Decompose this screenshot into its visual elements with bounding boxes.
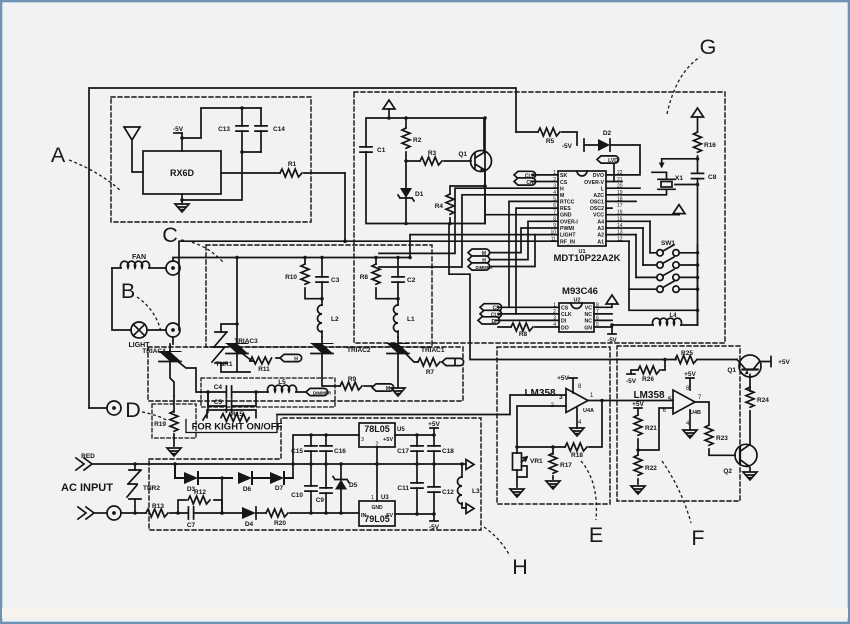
- triac TRIAC3: [226, 338, 258, 354]
- svg-text:M: M: [560, 193, 564, 199]
- U1 left pin labels: [560, 173, 578, 246]
- IC U5 78L05: [359, 423, 405, 448]
- wire triac2 bottom to R9: [322, 354, 340, 386]
- power +5V osc box: [383, 100, 395, 118]
- svg-text:OVER-I: OVER-I: [560, 220, 578, 226]
- svg-text:R20: R20: [274, 520, 286, 527]
- svg-text:R21: R21: [645, 425, 657, 432]
- svg-text:17: 17: [617, 203, 623, 209]
- svg-text:MDT10P22A2K: MDT10P22A2K: [553, 253, 620, 264]
- svg-text:U5: U5: [397, 427, 405, 433]
- wire R1 down to RF_IN: [344, 173, 346, 241]
- svg-text:R8: R8: [519, 331, 528, 338]
- svg-text:G: G: [700, 35, 717, 59]
- capacitor C15: [291, 435, 317, 464]
- label +5V r21: [632, 401, 644, 415]
- label -5V: [173, 126, 184, 133]
- svg-text:R12: R12: [194, 489, 206, 496]
- svg-text:C14: C14: [273, 126, 285, 133]
- varistor TNR1: [212, 324, 250, 372]
- dashed box F: [617, 346, 740, 501]
- transistor Q2: [723, 444, 757, 475]
- svg-text:R17: R17: [560, 462, 572, 469]
- flag gate R7: [442, 358, 464, 365]
- wire pin10 LIGHT: [410, 235, 558, 258]
- svg-text:R8: R8: [360, 274, 369, 281]
- svg-text:GN: GN: [584, 325, 592, 331]
- U1 right pin stubs: [606, 175, 679, 241]
- svg-text:1: 1: [371, 495, 374, 501]
- dashed box C: [206, 245, 432, 347]
- svg-text:R26: R26: [642, 376, 654, 383]
- U2 pin labels: [561, 306, 592, 332]
- wire triac1 bottom gnd: [391, 354, 405, 396]
- svg-text:C13: C13: [218, 126, 230, 133]
- svg-text:D2: D2: [603, 130, 612, 137]
- svg-text:C8: C8: [708, 174, 717, 181]
- wire pin8 OVER-I: [490, 221, 558, 259]
- wire Q1 emitter: [485, 170, 558, 224]
- svg-text:R1: R1: [288, 161, 297, 168]
- wire AC line1: [92, 463, 462, 465]
- svg-text:FAN: FAN: [132, 254, 146, 261]
- wire light col down: [170, 337, 173, 351]
- wire pin5 RTCC: [509, 201, 558, 307]
- svg-text:AC INPUT: AC INPUT: [61, 482, 113, 494]
- resistor R8: [360, 258, 398, 299]
- wire signal to F box: [449, 224, 665, 360]
- wire zero cross to E: [277, 395, 566, 415]
- wire lamp to terminal: [147, 329, 166, 331]
- svg-text:RED: RED: [81, 453, 95, 460]
- IC RX6D: [143, 151, 221, 194]
- switch row1: [650, 221, 698, 256]
- capacitor C3: [316, 258, 340, 299]
- resistor R16: [694, 132, 717, 172]
- U1 right pin labels: [584, 173, 605, 246]
- wire 78L05 pin2: [376, 447, 378, 464]
- dashed box H: [149, 418, 481, 530]
- terminal FAN: [166, 261, 180, 275]
- svg-text:C17: C17: [397, 448, 409, 455]
- wire triac4 gate: [176, 360, 208, 392]
- svg-text:H: H: [560, 187, 564, 193]
- wire -5V rail: [395, 513, 434, 515]
- inductor L3: [458, 464, 480, 508]
- svg-text:D: D: [125, 398, 141, 422]
- svg-text:3: 3: [361, 437, 364, 443]
- svg-text:DIMMER: DIMMER: [476, 265, 493, 270]
- svg-text:R18: R18: [571, 452, 583, 459]
- svg-text:TNR2: TNR2: [143, 485, 160, 492]
- svg-text:-5V: -5V: [607, 338, 616, 344]
- svg-text:U3: U3: [381, 495, 389, 501]
- wire diode row feed: [175, 464, 178, 478]
- terminal T1: [107, 401, 121, 415]
- svg-text:F: F: [691, 526, 704, 550]
- capacitor C4: [208, 384, 256, 398]
- svg-text:-5V: -5V: [626, 378, 637, 385]
- svg-text:NC: NC: [585, 312, 593, 318]
- ground RX6D: [175, 194, 189, 212]
- inductor L4: [612, 313, 698, 325]
- capacitor C2: [392, 258, 416, 299]
- wire fan rail: [173, 258, 410, 262]
- inductor L5: [256, 379, 306, 392]
- inductor L1: [394, 299, 415, 337]
- capacitor C14: [255, 108, 285, 152]
- svg-text:R16: R16: [704, 142, 716, 149]
- svg-text:RTCC: RTCC: [560, 200, 575, 206]
- antenna: [124, 127, 143, 172]
- svg-text:21: 21: [617, 177, 623, 183]
- resistor R2: [402, 118, 422, 161]
- wire D7 up to 78L05: [293, 435, 359, 478]
- svg-text:A2: A2: [597, 233, 604, 239]
- svg-text:+5V: +5V: [778, 359, 790, 366]
- capacitor C11: [397, 464, 423, 514]
- dashed box triac row: [148, 347, 463, 401]
- flag H gate: [280, 354, 302, 362]
- svg-text:5: 5: [668, 396, 672, 403]
- terminal T2: [107, 506, 121, 520]
- svg-text:D7: D7: [275, 485, 284, 492]
- power +5V u4b: [684, 371, 696, 390]
- flag CN pin2: [514, 178, 558, 186]
- svg-text:CLK: CLK: [561, 312, 572, 318]
- ground u4a pin4: [570, 408, 584, 436]
- svg-text:+5V: +5V: [684, 371, 696, 378]
- wire AC line2: [94, 512, 107, 514]
- U1 left pin numbers: [550, 170, 556, 243]
- svg-text:OSC1: OSC1: [590, 200, 604, 206]
- dashed box dimmer: [201, 378, 335, 407]
- svg-text:LM358: LM358: [524, 388, 556, 399]
- flag CLR pin1: [514, 171, 558, 179]
- resistor R4: [435, 186, 485, 224]
- capacitor C7: [178, 507, 222, 529]
- svg-text:RES: RES: [560, 206, 571, 212]
- svg-text:C9: C9: [316, 497, 325, 504]
- resistor R26: [631, 360, 665, 384]
- wire pin4 M: [379, 195, 558, 267]
- svg-text:C2: C2: [407, 277, 416, 284]
- arrow out low: [466, 504, 474, 514]
- capacitor C18b: [428, 435, 454, 464]
- svg-text:VC: VC: [585, 306, 592, 312]
- flag DIMMER out: [306, 388, 332, 395]
- resistor R12 parallel: [178, 489, 222, 513]
- resistor R9: [340, 376, 372, 390]
- opamp U4B: [633, 386, 702, 427]
- capacitor C12: [428, 464, 454, 514]
- svg-text:B: B: [121, 279, 135, 303]
- svg-text:D5: D5: [349, 482, 358, 489]
- ground R17: [546, 481, 560, 489]
- resistor R5: [516, 128, 577, 145]
- label -5V u2: [607, 327, 616, 344]
- flag DIMMER mid: [468, 263, 492, 270]
- svg-text:VCC: VCC: [593, 213, 604, 219]
- wire pin3 H: [379, 188, 558, 253]
- svg-text:L5: L5: [278, 379, 286, 386]
- resistor R25: [665, 350, 737, 364]
- diode D2: [598, 130, 640, 175]
- switch row3: [636, 235, 698, 281]
- arrow out mid: [462, 460, 474, 470]
- capacitor C9: [316, 464, 332, 513]
- capacitor C5: [208, 392, 256, 412]
- svg-text:R13: R13: [152, 503, 164, 510]
- svg-text:DO: DO: [561, 325, 569, 331]
- flag CLK u2: [480, 310, 559, 318]
- wire pin9 PWMI: [490, 228, 558, 253]
- resistor R13: [121, 503, 178, 517]
- wire oscillator sub-box: [366, 118, 485, 224]
- svg-text:D1: D1: [415, 191, 424, 198]
- svg-text:DIMMER: DIMMER: [313, 390, 332, 395]
- svg-text:M: M: [386, 386, 390, 392]
- wire pin10b to flag: [490, 235, 535, 267]
- resistor R19: [154, 396, 178, 446]
- text FOR KIGHT ON/OFF: [186, 415, 283, 433]
- svg-text:VR1: VR1: [530, 458, 543, 465]
- wire pin11 RF_IN long: [179, 241, 558, 330]
- svg-text:H: H: [512, 555, 528, 579]
- svg-text:DI: DI: [561, 319, 567, 325]
- svg-text:-5V: -5V: [384, 513, 393, 519]
- dashed box E: [497, 347, 610, 504]
- svg-text:C11: C11: [397, 485, 409, 492]
- inductor L2: [318, 299, 339, 337]
- svg-text:C4: C4: [214, 384, 223, 391]
- svg-text:IN: IN: [361, 513, 367, 519]
- svg-text:TRIAC1: TRIAC1: [421, 347, 445, 354]
- power +5V u4a: [557, 375, 577, 393]
- svg-text:C7: C7: [187, 522, 196, 529]
- resistor R20: [266, 509, 359, 527]
- svg-text:78L05: 78L05: [364, 424, 390, 434]
- svg-text:C12: C12: [442, 489, 454, 496]
- svg-text:OVER-V: OVER-V: [584, 180, 604, 186]
- diode D3: [178, 472, 232, 493]
- wire left AC to terminal: [89, 407, 107, 409]
- ground R22: [631, 486, 645, 494]
- wire D3-D6 junction down: [221, 478, 223, 513]
- svg-text:D4: D4: [245, 521, 254, 528]
- arrow pointer at X1: [659, 159, 698, 169]
- U2 right stubs: [594, 307, 612, 327]
- wire fan column: [112, 268, 131, 330]
- arrow AC line2: [78, 507, 94, 519]
- triac TRIAC1: [387, 337, 445, 354]
- diode D6: [238, 472, 270, 493]
- zener D5: [333, 464, 358, 513]
- wire sw bus: [629, 241, 698, 325]
- svg-text:+5V: +5V: [632, 401, 644, 408]
- IC U3 79L05: [359, 495, 395, 526]
- transistor Q1 out: [727, 355, 790, 377]
- dashed box D: [152, 404, 196, 438]
- IC U2 M93C46: [559, 286, 598, 332]
- svg-text:7: 7: [553, 210, 556, 216]
- big letters: [51, 35, 717, 579]
- diode D4: [222, 507, 266, 528]
- svg-text:C1: C1: [377, 147, 386, 154]
- capacitor C17: [397, 435, 423, 464]
- resistor R17: [549, 447, 572, 479]
- svg-text:R10: R10: [285, 274, 297, 281]
- IC U1 MDT10P22A2K: [553, 171, 620, 264]
- diode D7: [270, 472, 293, 492]
- power +5V vcc: [673, 205, 685, 215]
- label -5V tag: [429, 514, 440, 531]
- switch row2: [643, 228, 698, 268]
- svg-text:FOR KIGHT ON/OFF: FOR KIGHT ON/OFF: [192, 422, 283, 433]
- wire -5V stem: [181, 133, 183, 151]
- transistor Q1 osc: [458, 118, 491, 172]
- svg-text:CS: CS: [561, 306, 569, 312]
- wire feedback: [517, 446, 553, 448]
- svg-text:LM358: LM358: [633, 390, 665, 401]
- svg-text:R9: R9: [348, 376, 357, 383]
- label +5V tag: [428, 421, 440, 435]
- svg-text:C: C: [162, 223, 178, 247]
- capacitor C8: [692, 173, 717, 325]
- svg-text:OSC2: OSC2: [590, 206, 604, 212]
- svg-text:C18: C18: [442, 448, 454, 455]
- svg-text:R23: R23: [716, 435, 728, 442]
- U1 right pin numbers: [617, 170, 623, 243]
- svg-text:Q1: Q1: [727, 367, 736, 374]
- svg-text:LIGHT: LIGHT: [560, 233, 576, 239]
- svg-text:X1: X1: [675, 175, 683, 182]
- resistor R22: [634, 450, 657, 484]
- wire +5V rail: [395, 434, 434, 436]
- svg-text:NC: NC: [585, 319, 593, 325]
- svg-text:C3: C3: [331, 277, 340, 284]
- triac TRIAC4: [142, 348, 181, 362]
- svg-text:R22: R22: [645, 465, 657, 472]
- svg-text:A1: A1: [597, 240, 604, 246]
- svg-text:U4B: U4B: [690, 410, 701, 416]
- potentiometer VR1: [513, 447, 544, 487]
- svg-text:R24: R24: [757, 397, 769, 404]
- flag LVD: [597, 156, 622, 182]
- varistor TNR2: [127, 464, 160, 513]
- resistor R7: [404, 352, 446, 376]
- svg-text:-5V: -5V: [173, 126, 184, 133]
- svg-text:A: A: [51, 143, 66, 167]
- svg-text:+5V: +5V: [383, 437, 393, 443]
- lamp LIGHT: [129, 322, 151, 349]
- svg-text:A4: A4: [597, 220, 604, 226]
- svg-text:3: 3: [559, 394, 563, 401]
- resistor R3: [406, 150, 471, 165]
- svg-text:L4: L4: [669, 313, 677, 319]
- svg-text:U4A: U4A: [583, 408, 594, 414]
- resistor R6: [498, 323, 559, 338]
- svg-text:DVO: DVO: [593, 173, 604, 179]
- flag CS u2: [480, 304, 559, 312]
- svg-text:Q1: Q1: [458, 151, 467, 158]
- svg-text:R11: R11: [258, 366, 270, 373]
- svg-text:GND: GND: [560, 213, 572, 219]
- wire to C13 C14 top: [182, 108, 261, 138]
- wire 79L05 gnd: [376, 464, 378, 501]
- ground Q2: [743, 472, 757, 480]
- svg-text:L1: L1: [407, 316, 415, 323]
- svg-text:C10: C10: [291, 492, 303, 499]
- power +5V r16: [692, 108, 704, 132]
- wire triac3 column: [236, 258, 238, 344]
- svg-text:R7: R7: [426, 369, 435, 376]
- svg-text:Q2: Q2: [723, 468, 732, 475]
- resistor R18: [553, 401, 602, 460]
- wire cap bottoms: [182, 152, 261, 200]
- svg-text:-5V: -5V: [562, 143, 573, 150]
- svg-text:R5: R5: [546, 138, 555, 145]
- svg-text:R4: R4: [435, 203, 444, 210]
- svg-text:GND: GND: [371, 505, 383, 511]
- ground VR1: [510, 489, 524, 497]
- opamp U4A: [524, 384, 594, 426]
- svg-text:CS: CS: [560, 180, 568, 186]
- flag M gate: [372, 384, 394, 392]
- flag DI u2: [478, 317, 559, 325]
- resistor R10: [285, 258, 322, 299]
- ground R19: [167, 448, 181, 456]
- svg-text:TRIAC3: TRIAC3: [234, 338, 258, 345]
- zener D1: [398, 161, 424, 224]
- svg-text:TRIAC2: TRIAC2: [347, 347, 371, 354]
- svg-text:TRIAC4: TRIAC4: [142, 348, 166, 355]
- resistor R1: [221, 161, 345, 177]
- flag M mid: [468, 249, 490, 257]
- svg-text:H: H: [294, 356, 298, 362]
- switch row4: [629, 281, 698, 292]
- wire u4b pin6: [638, 408, 673, 450]
- svg-text:D6: D6: [243, 486, 252, 493]
- svg-text:R2: R2: [413, 137, 422, 144]
- capacitor C10: [291, 464, 317, 513]
- svg-text:A3: A3: [597, 226, 604, 232]
- capacitor C16: [320, 435, 346, 464]
- wire triac4 bottom: [170, 362, 174, 396]
- svg-text:L2: L2: [331, 316, 339, 323]
- svg-text:M93C46: M93C46: [562, 286, 598, 297]
- svg-text:RF_IN: RF_IN: [560, 240, 575, 246]
- resistor R24: [746, 375, 769, 446]
- resistor R11: [243, 354, 280, 373]
- svg-text:L3: L3: [472, 488, 480, 495]
- svg-text:SK: SK: [560, 173, 567, 179]
- power +5V u2: [606, 295, 618, 307]
- svg-text:C5: C5: [214, 399, 223, 406]
- dashed box G: [354, 92, 725, 343]
- svg-text:AZC: AZC: [593, 193, 604, 199]
- arrow AC line1: [76, 458, 92, 470]
- wire pin6 RES: [516, 208, 558, 314]
- svg-text:TNR1: TNR1: [216, 361, 233, 368]
- inductor FAN coil: [112, 254, 166, 268]
- capacitor C13: [218, 108, 248, 152]
- svg-text:C16: C16: [334, 448, 346, 455]
- pointer curves: [69, 57, 700, 556]
- flag H mid: [468, 256, 490, 264]
- svg-text:R25: R25: [681, 350, 693, 357]
- resistor R21: [634, 415, 657, 450]
